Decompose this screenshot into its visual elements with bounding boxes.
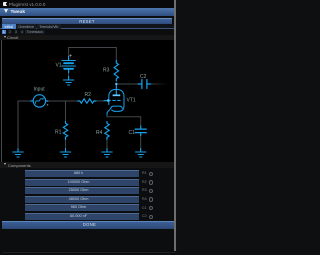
wire R4 bottom: [106, 138, 108, 150]
resistor R2: [78, 99, 96, 103]
capacitor C2: [138, 83, 151, 85]
component row R1: [25, 170, 139, 177]
wire R2 to grid: [95, 100, 104, 102]
Tweak header bar: [0, 8, 174, 16]
tube grid dashes: [108, 99, 121, 101]
svg-text:C1: C1: [129, 130, 136, 136]
junction dot grid: [107, 99, 110, 102]
tube plate lead: [115, 84, 117, 95]
title text: [9, 2, 45, 7]
wire R1 branch: [65, 101, 67, 122]
DONE button: [2, 221, 174, 229]
component row R4: [25, 196, 139, 203]
tabs row: [0, 24, 174, 29]
resistor R4: [105, 122, 109, 140]
Components section header: [0, 162, 174, 168]
wire cathode node: [107, 114, 141, 127]
wire C1 bottom: [140, 134, 142, 150]
capacitor C1: [140, 126, 142, 136]
plus input: [47, 104, 49, 106]
Circuit section header: [0, 35, 174, 41]
left border light line (schematic area): [1, 40, 2, 162]
RESET button: [2, 18, 172, 26]
resistor R1: [63, 122, 67, 140]
svg-text:Input: Input: [34, 87, 46, 93]
svg-text:VT1: VT1: [127, 98, 136, 104]
ground R1: [60, 149, 70, 158]
wire R1 bottom: [65, 138, 67, 150]
component row R3: [25, 187, 139, 194]
battery V1: [68, 57, 70, 60]
title bar: [0, 0, 174, 8]
tube plate bar: [113, 94, 121, 96]
numbered row: [2, 30, 7, 34]
svg-text:C2: C2: [140, 74, 147, 80]
wire input left: [18, 101, 33, 150]
svg-text:R4: R4: [96, 130, 103, 136]
wire battery to ground: [68, 71, 70, 79]
wire top rail: [69, 48, 117, 61]
tube cathode: [111, 106, 123, 108]
input source AC: [33, 95, 45, 107]
schematic canvas: [0, 40, 174, 162]
ground C1: [136, 149, 146, 158]
window frame: [0, 0, 179, 255]
svg-text:R3: R3: [103, 68, 110, 74]
title icon: [3, 2, 7, 7]
component row C2: [25, 213, 139, 220]
component row C1: [25, 204, 139, 211]
tube cathode lead: [107, 108, 111, 115]
ground V1: [63, 77, 73, 86]
junction dot plate: [115, 83, 117, 85]
svg-text:R2: R2: [85, 92, 92, 98]
right border light line: [174, 0, 176, 251]
svg-text:V1: V1: [56, 63, 62, 69]
wire plate node to C2: [116, 83, 138, 85]
tube VT1 envelope: [109, 89, 124, 111]
ground R4: [102, 149, 112, 158]
ground input: [13, 149, 23, 158]
wire input right to grid: [46, 100, 79, 102]
resistor R3: [114, 61, 118, 82]
svg-text:R1: R1: [55, 130, 62, 136]
bottom border line: [2, 252, 176, 253]
component row R2: [25, 179, 139, 186]
wire output fading: [149, 83, 168, 85]
tube grid lead: [104, 100, 108, 102]
plus battery: [69, 54, 71, 56]
